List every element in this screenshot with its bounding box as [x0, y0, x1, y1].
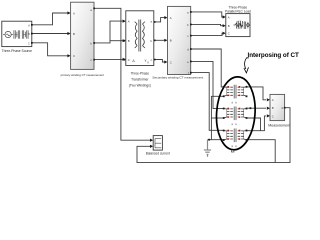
svg-text:Interposing of CT: Interposing of CT [248, 52, 299, 59]
svg-text:Balanced current: Balanced current [146, 152, 170, 156]
svg-text:B: B [128, 39, 130, 43]
svg-text:A: A [73, 11, 75, 15]
svg-text:C: C [272, 114, 274, 118]
svg-text:A: A [272, 98, 274, 102]
svg-text:Transformer: Transformer [131, 77, 149, 81]
svg-text:B: B [73, 32, 75, 36]
svg-text:B: B [28, 32, 30, 36]
svg-text:B: B [170, 39, 172, 43]
svg-text:C: C [28, 41, 30, 45]
svg-text:C: C [128, 58, 130, 62]
svg-text:Parallel RLC Load: Parallel RLC Load [225, 9, 251, 13]
svg-text:B: B [228, 24, 230, 28]
svg-text:A: A [128, 20, 130, 24]
svg-text:Three-Phase: Three-Phase [131, 71, 150, 75]
svg-text:(Two Windings): (Two Windings) [129, 83, 151, 87]
svg-text:A: A [170, 16, 172, 20]
svg-text:A: A [28, 23, 30, 27]
svg-text:Secondary winding CT measureme: Secondary winding CT measurement [152, 75, 203, 79]
svg-text:B: B [272, 106, 274, 110]
svg-text:C: C [170, 60, 172, 64]
svg-text:C: C [228, 32, 230, 36]
svg-text:Measurement: Measurement [268, 124, 290, 128]
svg-text:A: A [228, 15, 230, 19]
svg-text:primary winding CT measurement: primary winding CT measurement [61, 73, 105, 77]
svg-text:C: C [73, 54, 75, 58]
svg-text:Three-Phase Source: Three-Phase Source [2, 49, 33, 53]
